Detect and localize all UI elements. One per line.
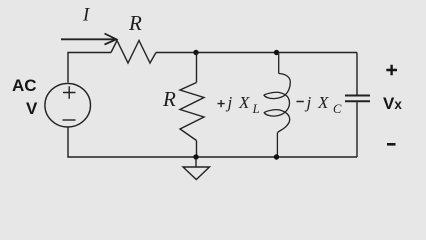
- resistor R2 (shunt, vertical): [180, 53, 204, 158]
- wire: left loop from source to top rail and bottom rail: [68, 53, 357, 158]
- node dot bottom-left: [193, 154, 198, 159]
- svg-text:I: I: [82, 6, 90, 26]
- resistor R1 (series, horizontal): [111, 41, 156, 64]
- svg-text:X: X: [317, 93, 329, 112]
- svg-text:j: j: [226, 93, 233, 112]
- wire: top rail from R1 to right branch: [156, 52, 357, 54]
- svg-text:R: R: [162, 87, 176, 111]
- node dot bottom-right: [274, 154, 279, 159]
- node dot top-left: [193, 50, 198, 55]
- label +jXL: [218, 93, 260, 116]
- label -jXC: [297, 93, 343, 116]
- node dot top-right: [274, 50, 279, 55]
- svg-text:V: V: [26, 99, 38, 118]
- inductor L1: [264, 53, 290, 158]
- svg-text:R: R: [128, 11, 142, 35]
- svg-text:Vx: Vx: [383, 94, 402, 113]
- svg-text:C: C: [333, 102, 342, 116]
- svg-text:L: L: [252, 102, 260, 116]
- svg-text:j: j: [305, 93, 312, 112]
- ground: [183, 157, 210, 180]
- label - (Vx minus): [387, 143, 396, 146]
- capacitor C1: [345, 96, 370, 102]
- svg-text:AC: AC: [12, 76, 37, 95]
- label + (Vx plus): [386, 65, 397, 76]
- AC source V1: [45, 83, 91, 127]
- svg-text:X: X: [238, 93, 250, 112]
- current arrow I: [61, 34, 116, 45]
- wire: right branch vertical: [356, 53, 358, 158]
